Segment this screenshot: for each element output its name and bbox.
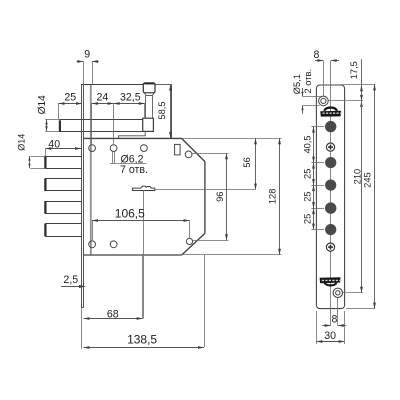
dimension 24 — [92, 92, 114, 145]
upper housing box — [81, 84, 172, 138]
svg-text:8: 8 — [313, 49, 319, 61]
dimension 106,5 — [92, 207, 190, 241]
dimension 25 (P3-P4) — [302, 185, 324, 208]
dimension 25 (P4-P5) — [302, 208, 324, 230]
horizontal centerline of cylinder — [155, 189, 255, 191]
lock body top-right chamfer — [182, 138, 205, 161]
lock case front edge line — [90, 84, 92, 255]
label Ø5,1 2 holes — [292, 69, 321, 114]
dimension 17,5 — [329, 59, 376, 107]
dimension Ø14 (deadbolts) — [17, 134, 31, 168]
deadbolt B3 — [45, 201, 81, 214]
deadbolt B2 — [45, 178, 81, 191]
dimension 245 — [346, 84, 376, 308]
lock body bottom edge — [84, 254, 282, 257]
screw hole H5 — [89, 241, 96, 248]
dimension 9 (top) — [77, 49, 99, 85]
bolt hole P4 — [325, 202, 336, 213]
latch bolt (top, side view) — [45, 103, 142, 131]
dimension 68 — [84, 255, 143, 320]
brand logo top — [320, 108, 342, 117]
vertical centerline of cylinder — [143, 191, 145, 319]
faceplate strip (side view) — [81, 84, 84, 307]
lock body right edge — [204, 162, 206, 234]
deadbolt B1 — [31, 156, 82, 169]
screw hole H7 on chamfer — [186, 238, 192, 244]
svg-text:106,5: 106,5 — [115, 207, 145, 221]
svg-text:8: 8 — [332, 313, 338, 325]
dimension 8 (top) — [313, 49, 339, 96]
svg-text:17,5: 17,5 — [349, 61, 359, 79]
fixing screw S1 — [326, 143, 334, 151]
svg-text:128: 128 — [268, 189, 278, 205]
brand logo bottom — [320, 277, 342, 285]
top screw hole (countersunk) — [319, 96, 329, 106]
bolt hole P2 — [325, 157, 336, 168]
svg-text:56: 56 — [242, 157, 252, 167]
svg-text:7 отв.: 7 отв. — [120, 164, 148, 176]
dimension 40 — [45, 138, 81, 155]
cylinder pin cap — [143, 83, 155, 93]
spring bracket L-shape — [119, 131, 146, 138]
dimension 128 — [268, 138, 281, 255]
cylinder pin stem — [146, 96, 153, 119]
svg-text:2,5: 2,5 — [63, 274, 78, 286]
dimension 2,5 — [61, 274, 86, 288]
svg-text:Ø14: Ø14 — [37, 95, 48, 115]
dimension 30 — [316, 311, 344, 344]
dimension 25 (latch protrusion) — [59, 92, 83, 105]
svg-text:25: 25 — [302, 214, 312, 224]
fixing screw S2 — [326, 243, 334, 251]
dimension 58,5 — [156, 85, 172, 139]
cylinder hole (bottom) — [333, 288, 342, 297]
svg-text:Ø5,1: Ø5,1 — [292, 74, 302, 94]
deadbolt B4 — [45, 224, 81, 237]
bolt hole P5 — [325, 224, 336, 235]
lock body top edge — [84, 137, 282, 139]
faceplate front outline — [316, 85, 344, 309]
cylinder pin neck — [144, 93, 154, 96]
svg-text:96: 96 — [215, 192, 225, 202]
bolt hole P3 — [325, 180, 336, 191]
svg-text:Ø14: Ø14 — [17, 134, 27, 151]
screw hole H3 — [141, 145, 148, 152]
svg-text:24: 24 — [97, 92, 109, 104]
keyhole vertical line — [337, 288, 339, 326]
faceplate strip lower extension line — [81, 308, 83, 349]
svg-text:25: 25 — [64, 92, 76, 104]
dimension 56 — [242, 138, 257, 189]
dimension 210 — [343, 101, 363, 293]
svg-text:25: 25 — [302, 169, 312, 179]
svg-text:32,5: 32,5 — [120, 92, 141, 104]
svg-text:9: 9 — [84, 49, 90, 61]
svg-text:30: 30 — [324, 330, 336, 342]
screw hole H6 — [110, 241, 117, 248]
dimension 138,5 — [84, 255, 205, 349]
screw hole H4 on chamfer — [185, 151, 192, 158]
bolt hole P1 — [325, 121, 336, 132]
svg-text:2 отв.: 2 отв. — [303, 69, 313, 94]
plate vertical centerline — [330, 61, 332, 326]
dimension 32,5 — [114, 92, 145, 119]
dimension 25 (P2-P3) — [302, 163, 324, 186]
svg-text:138,5: 138,5 — [127, 333, 157, 347]
svg-text:245: 245 — [363, 172, 373, 188]
screw hole H2 — [110, 145, 117, 152]
dimension 40,5 — [302, 127, 324, 163]
lock body bottom-right chamfer — [182, 233, 205, 255]
rectangular slot — [175, 144, 181, 155]
screw hole H1 — [89, 145, 96, 152]
dimension Ø14 (latch) — [37, 95, 48, 131]
follower block — [143, 118, 154, 131]
dimension 8 (bottom) — [322, 313, 346, 327]
svg-text:25: 25 — [302, 191, 312, 201]
label Ø6,2 7 holes with leader — [110, 152, 148, 176]
svg-text:40,5: 40,5 — [302, 135, 312, 153]
key follower profile — [132, 186, 154, 190]
svg-text:58,5: 58,5 — [157, 101, 167, 119]
dimension 96 — [192, 153, 228, 240]
